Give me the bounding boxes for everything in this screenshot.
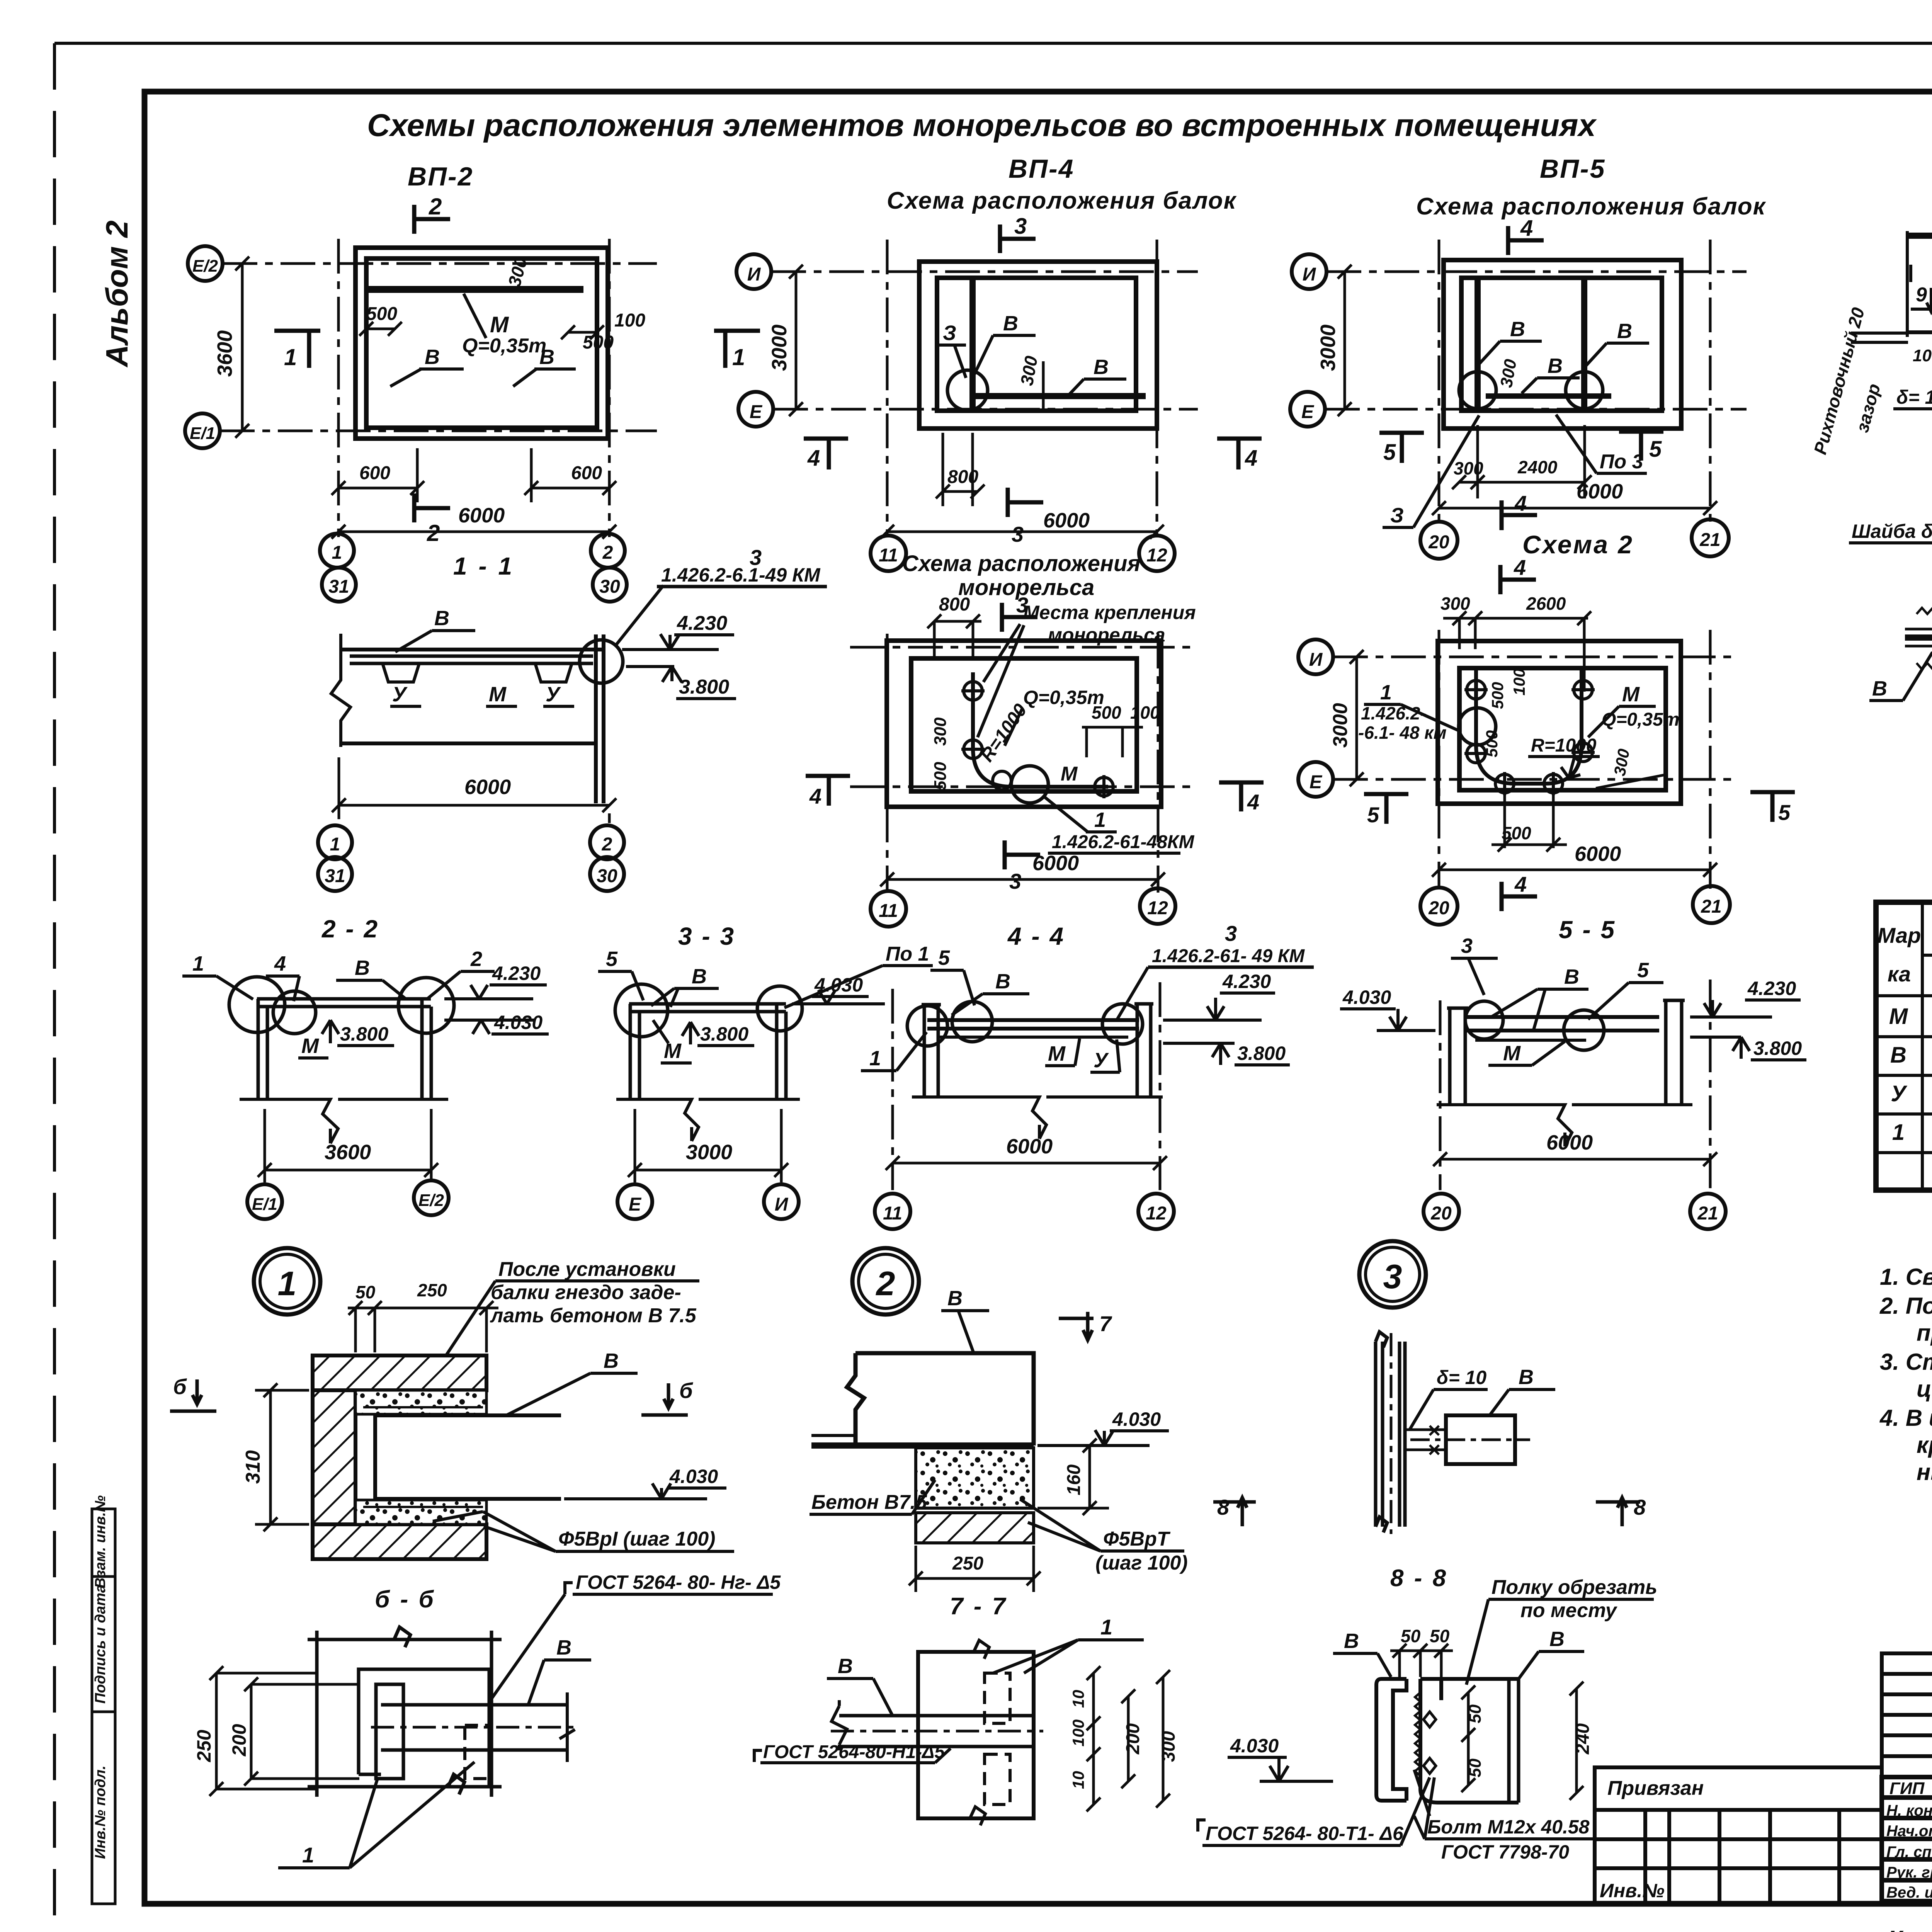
detail circle 2	[852, 1248, 919, 1315]
beam B horizontal	[375, 1415, 561, 1499]
axis circle E	[617, 1184, 652, 1219]
svg-text:1: 1	[302, 1843, 314, 1867]
svg-text:6000: 6000	[1575, 842, 1621, 866]
bottom flange of B / slab line	[1907, 330, 1932, 334]
svg-text:4: 4	[1247, 790, 1259, 814]
section 4 marks sides	[806, 776, 850, 806]
fixing circles	[961, 682, 1113, 798]
svg-text:7 - 7: 7 - 7	[950, 1593, 1007, 1620]
axis circle 2	[591, 534, 625, 568]
svg-text:1.426.2-61- 49 КМ: 1.426.2-61- 49 КМ	[1152, 946, 1305, 966]
axis circle 31	[322, 568, 356, 602]
svg-text:Н. контр.: Н. контр.	[1886, 1802, 1932, 1819]
columns right	[422, 999, 431, 1099]
svg-text:50: 50	[355, 1282, 376, 1302]
svg-text:12: 12	[1146, 545, 1167, 566]
axis E line	[1333, 778, 1739, 781]
svg-text:50: 50	[1430, 1626, 1450, 1646]
table header texts	[1878, 918, 1932, 997]
svg-text:200: 200	[228, 1724, 250, 1757]
axis E/1 line	[220, 430, 657, 432]
left margin strip	[92, 1509, 115, 1904]
beam line	[257, 999, 431, 1007]
slab rect	[918, 1652, 1034, 1818]
axis circle 20	[1420, 888, 1458, 925]
svg-text:11: 11	[879, 901, 898, 921]
section 1 mark left	[274, 331, 320, 368]
svg-text:2 - 2: 2 - 2	[321, 915, 379, 943]
svg-text:50: 50	[1401, 1626, 1421, 1646]
axis circle 12	[1138, 1194, 1174, 1229]
axis I circle	[736, 254, 771, 289]
svg-text:4.230: 4.230	[1747, 978, 1796, 999]
svg-text:4.030: 4.030	[1230, 1735, 1279, 1757]
svg-text:1: 1	[1892, 1120, 1905, 1145]
dim 160	[1037, 1439, 1109, 1515]
svg-text:4.230: 4.230	[1222, 971, 1271, 992]
beam B top thick line	[1907, 233, 1932, 239]
svg-text:М: М	[1503, 1042, 1521, 1065]
svg-text:4: 4	[1514, 555, 1526, 580]
axis circle 30	[590, 857, 624, 891]
svg-text:4: 4	[1514, 872, 1527, 896]
room walls inner	[366, 259, 597, 428]
section mark 3 top	[1000, 224, 1036, 253]
svg-text:500: 500	[1483, 730, 1501, 757]
svg-text:1.426.2-6.1-49 КМ: 1.426.2-6.1-49 КМ	[661, 564, 821, 586]
dims right 10 100 10	[1087, 1666, 1100, 1811]
svg-text:4.230: 4.230	[492, 963, 541, 984]
svg-text:4.030: 4.030	[1112, 1408, 1161, 1430]
section mark 4 bottom	[1502, 882, 1537, 911]
svg-text:В: В	[1094, 355, 1109, 379]
svg-text:5: 5	[1367, 803, 1379, 827]
svg-text:М: М	[489, 683, 507, 706]
svg-text:ГОСТ 5264-80-Н1-Δ5: ГОСТ 5264-80-Н1-Δ5	[763, 1742, 945, 1762]
svg-text:Бетон В7.5: Бетон В7.5	[811, 1491, 927, 1514]
dims 50 50 right rotated	[1461, 1685, 1475, 1792]
svg-text:250: 250	[952, 1553, 983, 1574]
svg-text:3: 3	[1014, 214, 1027, 239]
dim 3000 vertical	[789, 265, 803, 416]
svg-text:В: В	[1548, 354, 1563, 378]
axis circle 12	[1140, 888, 1175, 924]
axis circle 21	[1692, 519, 1729, 556]
beam double line	[1466, 1017, 1659, 1031]
axis 20 vertical	[1438, 240, 1440, 526]
detail circles	[229, 977, 285, 1032]
svg-text:500: 500	[1488, 682, 1507, 709]
axis circle 20	[1423, 1194, 1459, 1229]
svg-text:Привязан: Привязан	[1607, 1777, 1704, 1799]
axis circle 31	[318, 857, 352, 891]
svg-text:б: б	[173, 1374, 187, 1399]
svg-text:ГОСТ 7798-70: ГОСТ 7798-70	[1441, 1841, 1569, 1863]
svg-text:1 - 1: 1 - 1	[453, 552, 514, 580]
section mark 4 bottom	[1502, 500, 1537, 530]
svg-text:Взам. инв.№: Взам. инв.№	[92, 1495, 109, 1588]
dim 200	[1121, 1689, 1135, 1788]
right column	[1663, 1000, 1685, 1105]
svg-text:8: 8	[1217, 1495, 1230, 1519]
room walls inner	[1459, 668, 1666, 790]
svg-text:1: 1	[732, 344, 745, 370]
svg-text:3.800: 3.800	[700, 1023, 748, 1045]
right beam verticals	[1509, 1679, 1519, 1803]
svg-text:4: 4	[807, 446, 820, 471]
room walls inner	[911, 658, 1137, 791]
svg-text:δ= 10: δ= 10	[1437, 1367, 1486, 1388]
svg-text:Ф5ВрТ: Ф5ВрТ	[1103, 1528, 1171, 1550]
svg-text:лать бетоном В 7.5: лать бетоном В 7.5	[490, 1304, 697, 1327]
svg-text:3: 3	[1009, 869, 1021, 893]
axis E circle	[1298, 762, 1333, 797]
hanger U left	[383, 663, 419, 682]
svg-text:У: У	[546, 683, 561, 706]
hidden anchors dashed	[985, 1673, 1010, 1723]
section 1 mark right	[714, 331, 760, 368]
svg-text:500: 500	[1502, 823, 1531, 843]
section mark 2 bottom	[414, 493, 450, 522]
dim 240	[1570, 1682, 1583, 1800]
section 5 marks	[1379, 433, 1424, 463]
floor line with break	[616, 1099, 800, 1141]
svg-text:50: 50	[1466, 1704, 1485, 1723]
svg-text:Е/2: Е/2	[192, 257, 218, 276]
axis 2 vertical	[608, 239, 611, 537]
svg-text:Полку обрезать: Полку обрезать	[1492, 1576, 1657, 1599]
svg-text:И: И	[1303, 264, 1316, 285]
svg-text:Е: Е	[1301, 402, 1315, 422]
svg-text:ГОСТ 5264- 80-Т1- Δ6: ГОСТ 5264- 80-Т1- Δ6	[1206, 1823, 1404, 1844]
svg-text:800: 800	[939, 594, 970, 615]
monorail M horizontal	[973, 393, 1146, 399]
svg-text:1: 1	[332, 543, 342, 563]
svg-text:2400: 2400	[1517, 457, 1558, 477]
svg-text:21: 21	[1697, 1203, 1718, 1224]
svg-text:В: В	[1510, 318, 1525, 341]
svg-text:В: В	[1549, 1628, 1565, 1651]
svg-text:3000: 3000	[1329, 703, 1352, 748]
right wall	[596, 634, 604, 803]
room walls inner	[937, 278, 1136, 411]
svg-text:21: 21	[1701, 896, 1721, 917]
dim 200	[244, 1677, 359, 1786]
svg-text:-6.1- 48 км: -6.1- 48 км	[1358, 723, 1447, 743]
hanger U right	[535, 663, 572, 682]
svg-text:М: М	[1048, 1042, 1066, 1065]
end ticks	[560, 1692, 575, 1762]
svg-text:5: 5	[938, 946, 950, 969]
svg-text:600: 600	[359, 463, 390, 483]
svg-text:1: 1	[330, 834, 340, 855]
svg-text:5: 5	[1778, 800, 1791, 825]
svg-text:6000: 6000	[464, 776, 511, 799]
axis circle 11	[871, 891, 906, 927]
svg-text:6000: 6000	[1577, 480, 1623, 503]
svg-text:Схема 2: Схема 2	[1522, 530, 1634, 559]
svg-text:Схемы расположения элементов: Схемы расположения элементов монорельсов…	[367, 108, 1597, 143]
detail circle at beam end	[580, 640, 623, 683]
stamp texts	[1600, 1676, 1932, 1932]
axis 12 vertical	[1157, 634, 1160, 893]
svg-text:Схема расположения: Схема расположения	[902, 551, 1141, 576]
svg-text:4: 4	[809, 784, 821, 808]
niche P shape	[359, 1669, 489, 1787]
svg-text:Инв.№: Инв.№	[1600, 1880, 1665, 1901]
axis 1 vertical	[337, 239, 340, 537]
svg-text:50: 50	[1466, 1759, 1485, 1777]
axis 21 dash vertical	[1709, 980, 1712, 1190]
notes	[1879, 1264, 1932, 1485]
svg-text:В: В	[1344, 1629, 1359, 1653]
svg-text:4 - 4: 4 - 4	[1007, 922, 1065, 950]
svg-text:М: М	[1622, 683, 1640, 706]
svg-text:Е/1: Е/1	[190, 424, 215, 443]
hatched band	[916, 1513, 1034, 1543]
axis E circle	[1290, 392, 1325, 427]
section 4 marks	[804, 439, 848, 469]
beam through	[839, 1716, 1034, 1747]
room walls outer	[355, 248, 608, 439]
svg-text:ВП-5: ВП-5	[1540, 154, 1605, 184]
floor line with break	[1437, 1105, 1692, 1146]
svg-text:Схема расположения балок: Схема расположения балок	[1416, 193, 1766, 220]
svg-text:балки гнездо заде-: балки гнездо заде-	[491, 1281, 681, 1304]
svg-text:И: И	[747, 264, 761, 285]
svg-text:После установки: После установки	[498, 1258, 676, 1281]
svg-text:1.426.2-: 1.426.2-	[1361, 703, 1426, 723]
axis 11 vertical	[886, 634, 889, 893]
svg-text:Схема расположения балок: Схема расположения балок	[887, 187, 1237, 214]
svg-text:В: В	[947, 1287, 963, 1310]
svg-text:3: 3	[1383, 1257, 1402, 1296]
svg-text:В: В	[556, 1636, 571, 1659]
svg-text:300: 300	[1440, 594, 1470, 614]
svg-text:1: 1	[1094, 808, 1106, 832]
detail circles	[615, 984, 668, 1037]
svg-text:Е: Е	[629, 1194, 642, 1215]
svg-text:310: 310	[242, 1450, 264, 1484]
svg-text:В: В	[425, 345, 440, 369]
svg-text:Места крепления: Места крепления	[1023, 602, 1196, 623]
svg-text:ка: ка	[1888, 962, 1911, 986]
svg-text:1: 1	[1380, 681, 1392, 704]
wall band	[308, 1627, 502, 1797]
svg-text:Е: Е	[750, 402, 763, 422]
axis 21 vertical	[1709, 630, 1712, 889]
anchor plate solid	[376, 1684, 403, 1779]
svg-text:1: 1	[278, 1264, 297, 1303]
section mark 4 top	[1508, 226, 1544, 255]
axis circle E/2	[414, 1180, 449, 1215]
axis circle 12	[1139, 536, 1175, 571]
svg-text:11: 11	[879, 545, 898, 566]
axis 11 dash vertical	[891, 989, 894, 1190]
svg-text:Ф5ВрI (шаг 100): Ф5ВрI (шаг 100)	[558, 1528, 715, 1550]
detail circles	[1465, 1001, 1503, 1039]
big detail circle	[1459, 708, 1496, 745]
main stamp body	[1882, 1777, 1932, 1901]
svg-text:500: 500	[366, 304, 397, 324]
bottom slab line	[341, 742, 596, 745]
columns right	[777, 1004, 786, 1099]
svg-text:Болт М12х 40.58: Болт М12х 40.58	[1427, 1816, 1590, 1838]
concrete band	[916, 1448, 1034, 1508]
svg-text:б - б: б - б	[375, 1586, 435, 1613]
svg-text:2: 2	[429, 194, 442, 219]
svg-text:В: В	[1617, 320, 1632, 343]
svg-text:В: В	[539, 345, 554, 369]
svg-text:8: 8	[1634, 1495, 1646, 1519]
axis I line	[771, 270, 1198, 273]
dim 3000 vertical	[1350, 650, 1364, 786]
axis circle E/1	[247, 1184, 282, 1219]
svg-text:Шайба δ= 10: Шайба δ= 10	[1852, 520, 1932, 542]
svg-text:100: 100	[1510, 668, 1528, 696]
detail circle 1	[254, 1248, 320, 1315]
detail circle	[947, 370, 988, 410]
axis 20 vertical	[1438, 630, 1440, 889]
svg-text:4: 4	[1514, 491, 1527, 515]
svg-text:1: 1	[869, 1047, 881, 1070]
svg-text:4: 4	[274, 952, 286, 975]
channel M section	[1376, 1679, 1406, 1801]
beam attached right	[1446, 1415, 1515, 1464]
table body texts	[1889, 1002, 1932, 1184]
svg-text:100: 100	[1069, 1719, 1087, 1747]
svg-text:3. Степень очистки от окис: 3. Степень очистки от окислов поверхност…	[1880, 1349, 1932, 1375]
svg-text:8 - 8: 8 - 8	[1390, 1565, 1448, 1592]
beam B left and right edges	[1907, 231, 1932, 337]
svg-text:30: 30	[597, 866, 617, 886]
monorail M below	[939, 1036, 1128, 1039]
svg-text:21: 21	[1699, 530, 1720, 550]
svg-text:6000: 6000	[1032, 852, 1079, 875]
element list table	[1876, 902, 1932, 1190]
svg-text:Е/1: Е/1	[252, 1195, 277, 1214]
beam B vertical	[969, 278, 976, 411]
svg-text:2: 2	[602, 834, 612, 855]
svg-text:4.030: 4.030	[1342, 986, 1391, 1008]
svg-text:10: 10	[1913, 346, 1932, 365]
svg-text:3000: 3000	[768, 325, 791, 371]
big detail circle	[1011, 766, 1048, 803]
svg-text:R=1000: R=1000	[1531, 735, 1597, 756]
dim 3600 vertical	[235, 257, 249, 438]
concrete lining bottom	[355, 1500, 486, 1524]
svg-text:М: М	[301, 1034, 319, 1058]
svg-text:2. Подбор монорельсов, а та: 2. Подбор монорельсов, а так же всех кре…	[1879, 1293, 1932, 1319]
svg-text:У: У	[1891, 1081, 1907, 1106]
room walls outer	[1444, 260, 1681, 429]
monorail M below	[1475, 1039, 1586, 1042]
svg-text:4.030: 4.030	[669, 1466, 718, 1487]
svg-text:2: 2	[876, 1264, 895, 1303]
axis I circle	[1298, 639, 1333, 674]
svg-text:12: 12	[1146, 1203, 1167, 1224]
axis E line	[1325, 408, 1747, 411]
svg-text:12: 12	[1147, 898, 1168, 918]
svg-text:В: В	[355, 956, 370, 980]
svg-text:3.800: 3.800	[679, 676, 729, 698]
svg-text:ГОСТ 5264- 80- Нг- Δ5: ГОСТ 5264- 80- Нг- Δ5	[576, 1571, 781, 1593]
svg-text:По 3: По 3	[1600, 451, 1643, 473]
axis circle I	[764, 1184, 799, 1219]
axis 11 vertical	[886, 240, 889, 537]
detail circle 3	[1359, 1241, 1426, 1308]
svg-text:В: В	[995, 970, 1010, 993]
axis I circle	[1292, 254, 1327, 289]
svg-text:4: 4	[1520, 216, 1533, 241]
svg-text:ВП-4: ВП-4	[1009, 154, 1074, 184]
svg-text:И: И	[775, 1194, 789, 1215]
svg-text:1. Сварку производить элект: 1. Сварку производить электродами типа Э…	[1880, 1264, 1932, 1290]
room walls outer	[1438, 641, 1681, 804]
axis circle 20	[1420, 522, 1458, 559]
axis circle 1	[318, 825, 352, 859]
svg-text:В: В	[604, 1349, 619, 1372]
axis E/2 circle	[188, 246, 223, 281]
columns right	[1134, 1004, 1153, 1098]
axis 21 vertical	[1709, 240, 1712, 526]
axis circle 30	[593, 568, 627, 602]
beam B vertical left	[1475, 278, 1481, 411]
svg-text:3.800: 3.800	[1753, 1037, 1802, 1059]
axis circle 1	[320, 534, 354, 568]
svg-text:20: 20	[1428, 532, 1449, 553]
svg-text:3.800: 3.800	[1237, 1043, 1286, 1064]
svg-text:У: У	[1094, 1049, 1109, 1072]
axis circle 21	[1693, 886, 1730, 923]
column	[1376, 1332, 1405, 1532]
beam B double line	[350, 656, 593, 663]
svg-text:Нач.отд.: Нач.отд.	[1886, 1823, 1932, 1840]
beam M monorail	[367, 286, 583, 293]
bolts	[1423, 1712, 1436, 1774]
monorail path U shape	[1476, 670, 1582, 784]
svg-text:1: 1	[1100, 1615, 1112, 1639]
svg-text:7: 7	[1099, 1311, 1112, 1336]
svg-text:300: 300	[931, 717, 950, 746]
svg-text:5 - 5: 5 - 5	[1559, 916, 1616, 944]
svg-text:Q=0,35т: Q=0,35т	[462, 335, 546, 357]
left column	[1447, 1008, 1468, 1105]
svg-text:240: 240	[1573, 1723, 1593, 1755]
svg-text:3600: 3600	[325, 1141, 371, 1164]
section mark 3 top	[1002, 603, 1037, 632]
rail band	[1905, 634, 1932, 641]
svg-text:5: 5	[606, 947, 618, 971]
svg-text:В: В	[1890, 1043, 1906, 1068]
svg-text:Рук. гр.: Рук. гр.	[1886, 1864, 1932, 1881]
svg-text:произведен по серии 1.426.: произведен по серии 1.426.2 - 6 вып. 1.	[1917, 1320, 1932, 1346]
beam double line	[927, 1020, 1139, 1029]
svg-text:М: М	[490, 312, 509, 337]
svg-text:1: 1	[284, 344, 297, 370]
svg-text:160: 160	[1064, 1464, 1084, 1495]
dim 3000 vertical	[1338, 265, 1352, 416]
svg-text:20: 20	[1430, 1203, 1452, 1224]
beam B vertical right	[1581, 278, 1587, 411]
columns left	[258, 999, 267, 1099]
svg-text:5: 5	[1649, 437, 1662, 462]
dim 300	[1156, 1670, 1170, 1808]
richt gap lines left	[1851, 333, 1908, 342]
svg-text:2: 2	[602, 543, 613, 563]
svg-text:30: 30	[599, 577, 620, 597]
svg-text:Инв.№ подл.: Инв.№ подл.	[92, 1765, 109, 1859]
